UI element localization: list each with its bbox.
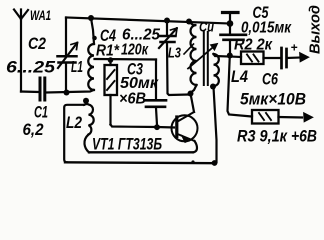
node R2 junction — [227, 53, 233, 59]
resistor R2 — [230, 52, 280, 65]
node L1 top — [88, 15, 94, 21]
svg-text:Выход: Выход — [307, 5, 324, 54]
inductor L4 — [214, 54, 230, 162]
node L4 bottom — [210, 84, 216, 90]
wire L1 top lead — [91, 18, 94, 44]
svg-text:R3 9,1к: R3 9,1к — [237, 128, 288, 146]
svg-text:+: + — [291, 41, 298, 55]
wire B tap — [95, 58, 157, 61]
node L3 top — [186, 19, 192, 25]
svg-text:R2 2к: R2 2к — [234, 37, 273, 54]
svg-text:C1: C1 — [34, 104, 48, 122]
capacitor C4 variable — [159, 21, 188, 96]
svg-text:×6В: ×6В — [119, 91, 146, 108]
node collector — [188, 91, 194, 97]
wire C1 to L1 — [47, 90, 94, 93]
node rail end — [227, 20, 234, 27]
base wire — [111, 125, 175, 128]
svg-text:L1: L1 — [71, 59, 83, 76]
resistor R1 — [105, 60, 118, 125]
svg-text:0,015мк: 0,015мк — [241, 20, 292, 37]
svg-text:6,2: 6,2 — [23, 121, 44, 139]
inductor L3 — [189, 22, 197, 93]
svg-text:Cи: Cи — [199, 19, 214, 35]
capacitor C2 variable — [58, 18, 78, 93]
svg-text:6...25: 6...25 — [6, 59, 56, 77]
node tick on rail — [191, 160, 194, 163]
node rail right end — [212, 160, 218, 166]
node base — [154, 124, 160, 130]
svg-text:5мк×10В: 5мк×10В — [240, 90, 306, 109]
capacitor C5 — [221, 24, 247, 55]
top rail — [66, 18, 230, 24]
node L2 top — [83, 98, 89, 104]
svg-text:50мк: 50мк — [120, 75, 159, 92]
svg-text:C2: C2 — [28, 35, 46, 53]
svg-text:C6: C6 — [262, 71, 279, 89]
capacitor C6 — [282, 48, 302, 68]
node C2 bottom — [64, 90, 70, 96]
node small — [92, 36, 97, 41]
wire junction down to R3 — [228, 56, 253, 117]
bottom rail — [65, 161, 216, 164]
svg-text:120к: 120к — [121, 42, 149, 59]
chassis ground bar — [223, 11, 239, 14]
inductor L2 — [84, 104, 94, 152]
inductor L1 — [88, 44, 94, 90]
wire collector riser — [191, 94, 195, 113]
svg-text:+6В: +6В — [291, 128, 317, 146]
capacitor C3 — [145, 60, 166, 126]
coupling arrow — [188, 44, 218, 69]
transistor VT1 — [172, 112, 198, 152]
arrow L3 adjust — [184, 44, 194, 54]
antenna WA1 — [14, 10, 28, 92]
svg-text:L2: L2 — [66, 114, 82, 132]
node R1 top — [108, 57, 114, 63]
emitter wire — [89, 151, 193, 153]
transformer core — [204, 32, 208, 85]
node C4 top — [164, 18, 170, 24]
svg-text:R1*: R1* — [96, 43, 120, 60]
wire L2 loop left — [64, 105, 84, 163]
svg-text:WA1: WA1 — [30, 7, 51, 23]
svg-text:L3: L3 — [168, 45, 181, 62]
wire antenna to C1 — [21, 90, 38, 93]
resistor R3 — [252, 110, 312, 124]
svg-text:VT1 ГТ313Б: VT1 ГТ313Б — [92, 135, 162, 154]
capacitor C1 — [40, 78, 45, 100]
svg-text:L4: L4 — [231, 68, 248, 86]
output arrow — [300, 54, 307, 61]
